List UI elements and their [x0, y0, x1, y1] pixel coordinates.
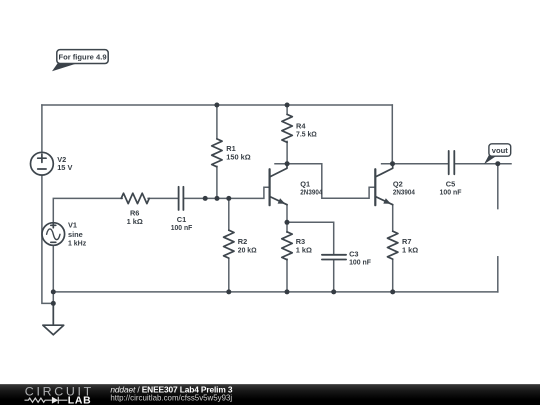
resistor R1	[212, 139, 222, 167]
svg-text:2N3904: 2N3904	[393, 189, 415, 197]
svg-text:sine: sine	[68, 230, 83, 239]
footer bar	[0, 384, 540, 405]
node dot Q1 collector	[285, 161, 290, 166]
svg-text:LAB: LAB	[68, 396, 92, 405]
node dot R4 top	[285, 103, 290, 108]
ground	[43, 303, 64, 334]
wire Q1 collector to Q2 base	[275, 164, 374, 199]
transistor Q2	[374, 169, 376, 205]
svg-text:100 nF: 100 nF	[349, 258, 371, 267]
node dot R7 bottom	[390, 289, 395, 294]
svg-text:Q1: Q1	[300, 180, 310, 189]
resistor R3	[282, 232, 292, 260]
wire right riser from rail (open stub)	[497, 257, 499, 292]
transistor Q1	[269, 169, 271, 205]
wire Q2 emitter down to R7	[392, 205, 394, 232]
node dot Q2 collector	[390, 161, 395, 166]
wire C1 to Q1 base jog	[184, 187, 269, 198]
wire Q1 emitter down to R3	[286, 205, 288, 233]
flag vout	[484, 144, 511, 165]
svg-text:For figure 4.9: For figure 4.9	[58, 53, 106, 62]
node dot R2 bottom	[226, 289, 231, 294]
svg-text:7.5 kΩ: 7.5 kΩ	[296, 130, 317, 139]
wire C3 bottom lead	[333, 260, 335, 292]
flag For figure 4.9	[52, 50, 108, 72]
voltage source V2	[31, 152, 54, 175]
svg-text:150 kΩ: 150 kΩ	[226, 153, 250, 162]
svg-text:1 kΩ: 1 kΩ	[127, 217, 143, 226]
wire R3 bottom lead	[286, 259, 288, 292]
node dot V2 ground join	[51, 301, 56, 306]
svg-text:http://circuitlab.com/cfss5v5w: http://circuitlab.com/cfss5v5w5y93j	[110, 393, 232, 403]
svg-text:1 kHz: 1 kHz	[68, 239, 86, 248]
resistor R2	[224, 230, 234, 258]
wire R1 bottom lead	[216, 166, 218, 198]
wire R2 bottom lead	[228, 259, 230, 292]
wire R4 bottom lead	[286, 141, 288, 163]
capacitor C1	[179, 187, 184, 210]
wire right drop to Q2 collector	[391, 105, 393, 164]
svg-text:Q2: Q2	[393, 180, 403, 189]
svg-text:100 nF: 100 nF	[440, 188, 462, 197]
svg-text:100 nF: 100 nF	[171, 223, 193, 232]
node dot R2 top	[226, 196, 231, 201]
node dot C3 bottom	[331, 289, 336, 294]
wire R4 top lead	[286, 105, 288, 114]
resistor R6	[121, 193, 149, 203]
svg-text:1 kΩ: 1 kΩ	[296, 246, 312, 255]
wire C5 to vout	[455, 163, 511, 165]
wire R7 bottom lead	[392, 260, 394, 292]
svg-text:2N3904: 2N3904	[300, 189, 322, 197]
node dot vout	[495, 161, 500, 166]
wire emitter node to C3	[287, 222, 334, 254]
wire vout drop stub	[497, 164, 499, 209]
wire R6 to C1	[148, 197, 178, 199]
wire bottom rail	[53, 291, 498, 293]
logo resistor-diode glyph	[25, 397, 68, 404]
svg-text:V1: V1	[68, 221, 77, 230]
svg-text:vout: vout	[492, 146, 509, 155]
wire R1 top lead	[216, 105, 218, 139]
capacitor C3	[322, 255, 346, 260]
emitter arrow Q1	[278, 198, 286, 204]
capacitor C5	[449, 151, 455, 174]
node dot C1 out	[203, 196, 208, 201]
emitter arrow Q2	[383, 198, 391, 204]
wire R2 top lead	[228, 198, 230, 230]
wire V1 top up and over to R6	[53, 198, 122, 222]
wire Q2 collector to C5	[382, 163, 449, 165]
svg-text:1 kΩ: 1 kΩ	[402, 246, 418, 255]
voltage source V1 (sine)	[42, 223, 65, 246]
node dot R1 bottom	[215, 196, 220, 201]
wire V2 bottom down and over to ground node	[42, 175, 53, 303]
resistor R4	[282, 114, 292, 142]
wire left rail top (to V2)	[41, 105, 43, 152]
node dot rail left	[51, 289, 56, 294]
wire V1 bottom down to ground	[52, 245, 54, 325]
resistor R7	[388, 231, 398, 259]
wire top rail	[42, 104, 392, 106]
node dot R1 top	[214, 103, 219, 108]
node dot R3 bottom	[285, 289, 290, 294]
svg-text:15 V: 15 V	[57, 163, 72, 172]
svg-text:20 kΩ: 20 kΩ	[238, 246, 257, 255]
node dot Q1 emitter / C3 branch	[285, 220, 290, 225]
